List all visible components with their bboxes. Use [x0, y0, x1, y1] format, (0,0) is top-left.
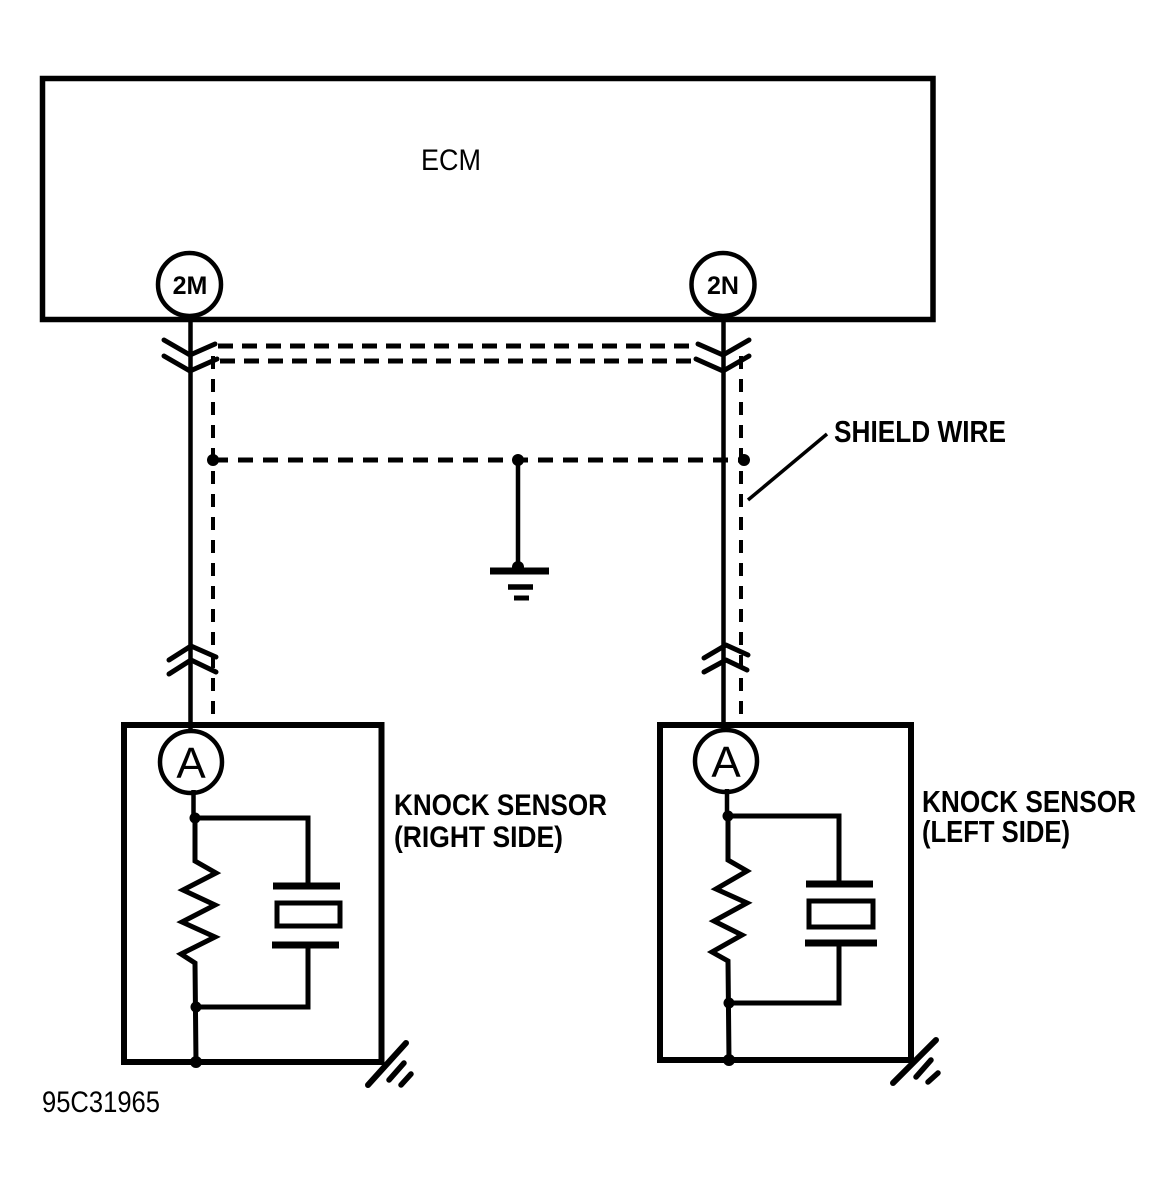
svg-text:(RIGHT SIDE): (RIGHT SIDE)	[394, 821, 563, 854]
svg-text:2N: 2N	[707, 272, 739, 300]
svg-text:KNOCK SENSOR: KNOCK SENSOR	[394, 789, 607, 822]
svg-text:ECM: ECM	[421, 144, 481, 177]
svg-text:A: A	[176, 739, 206, 788]
svg-text:95C31965: 95C31965	[42, 1086, 160, 1119]
svg-text:(LEFT SIDE): (LEFT SIDE)	[922, 814, 1070, 849]
svg-text:2M: 2M	[173, 272, 208, 300]
svg-text:A: A	[711, 738, 741, 787]
svg-text:SHIELD WIRE: SHIELD WIRE	[834, 414, 1006, 449]
